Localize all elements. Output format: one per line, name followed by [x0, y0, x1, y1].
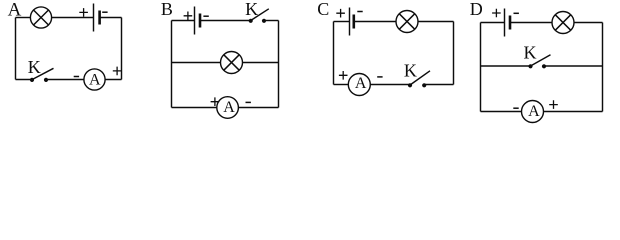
- wire D top: battery to lamp: [510, 22, 552, 24]
- ammeter M1: [84, 69, 105, 90]
- svg-text:K: K: [524, 43, 537, 63]
- label B: [161, 0, 173, 19]
- plus label battery B2: [184, 12, 193, 21]
- wire C top: corner to battery: [334, 21, 350, 23]
- svg-text:D: D: [470, 0, 483, 19]
- plus label ammeter M1: [113, 67, 122, 76]
- svg-text:A: A: [355, 75, 367, 92]
- svg-text:K: K: [28, 57, 41, 77]
- label C: [317, 0, 329, 19]
- switch K1: [30, 68, 54, 82]
- lamp L3: [396, 11, 418, 33]
- wire A bottom: ammeter to right corner: [105, 79, 121, 81]
- wire A top: battery to right corner: [100, 17, 122, 19]
- battery B4 long plate: [504, 9, 506, 37]
- svg-text:A: A: [528, 103, 540, 120]
- minus label ammeter M3: [377, 76, 382, 78]
- svg-text:A: A: [223, 99, 235, 116]
- wire B bottom rail left: [172, 107, 217, 109]
- plus label ammeter M4: [549, 100, 558, 109]
- wire A top: lamp to battery: [52, 17, 94, 19]
- svg-text:B: B: [161, 0, 173, 19]
- wire B top: battery to switch: [200, 20, 251, 22]
- wire C bottom: switch to right corner: [424, 84, 453, 86]
- wire D top: lamp to right corner: [574, 22, 603, 24]
- wire A bottom: corner to switch: [16, 79, 33, 81]
- wire C bottom: corner to ammeter: [334, 84, 349, 86]
- wire B middle rail right: [243, 62, 279, 64]
- wire C top: battery to lamp: [354, 21, 396, 23]
- minus label battery B3: [357, 11, 362, 13]
- wire C left vertical: [333, 22, 335, 85]
- minus label ammeter M1: [74, 76, 79, 78]
- wire A left vertical: [15, 18, 17, 80]
- minus label ammeter M2: [246, 101, 251, 103]
- battery B2 long plate: [194, 7, 196, 35]
- minus label ammeter M4: [513, 107, 518, 109]
- switch K4: [528, 55, 550, 69]
- wire B top: corner to battery: [172, 20, 195, 22]
- label A: [8, 0, 22, 20]
- wire B bottom rail right: [238, 107, 278, 109]
- lamp L1: [30, 7, 51, 28]
- wire B left vertical: [171, 21, 173, 108]
- label K switch K2: [245, 0, 258, 19]
- battery B3 short plate: [352, 15, 355, 29]
- svg-text:K: K: [404, 61, 417, 81]
- battery B2 short plate: [199, 14, 202, 28]
- wire D left vertical: [480, 23, 482, 112]
- wire C top: lamp to right corner: [418, 21, 454, 23]
- label K switch K4: [524, 43, 537, 63]
- battery B4 short plate: [509, 16, 512, 30]
- minus label battery B4: [514, 12, 519, 14]
- battery B1 long plate: [93, 4, 95, 32]
- wire B right vertical: [278, 21, 280, 108]
- plus label ammeter M2: [211, 97, 220, 106]
- switch K3: [408, 71, 430, 88]
- wire C bottom: ammeter to switch: [370, 84, 410, 86]
- wire A right vertical: [121, 18, 123, 80]
- plus label battery B4: [492, 9, 501, 18]
- wire D middle rail right: [544, 65, 603, 67]
- plus label battery B3: [336, 9, 345, 18]
- plus label battery B1: [79, 8, 88, 17]
- wire D top: corner to battery: [481, 22, 505, 24]
- wire D right vertical: [602, 23, 604, 112]
- lamp L4: [552, 12, 574, 34]
- svg-text:A: A: [89, 72, 101, 89]
- wire D bottom rail right: [544, 111, 603, 113]
- minus label battery B1: [102, 11, 107, 13]
- ammeter M4: [522, 101, 544, 123]
- wire D middle rail left: [481, 65, 531, 67]
- svg-text:C: C: [317, 0, 329, 19]
- switch K2: [249, 9, 269, 23]
- wire C right vertical: [453, 22, 455, 85]
- label K switch K3: [404, 61, 417, 81]
- wire A top: corner to lamp: [16, 17, 31, 19]
- wire B top: switch to right corner: [264, 20, 279, 22]
- label K switch K1: [28, 57, 41, 77]
- wire B middle rail left: [172, 62, 221, 64]
- label D: [470, 0, 483, 19]
- plus label ammeter M3: [339, 71, 348, 80]
- ammeter M3: [348, 74, 370, 96]
- wire D bottom rail left: [481, 111, 522, 113]
- ammeter M2: [217, 97, 239, 119]
- lamp L2: [221, 52, 243, 74]
- minus label battery B2: [203, 15, 208, 17]
- battery B1 short plate: [98, 11, 101, 25]
- battery B3 long plate: [349, 8, 351, 36]
- wire A bottom: switch to ammeter: [46, 79, 84, 81]
